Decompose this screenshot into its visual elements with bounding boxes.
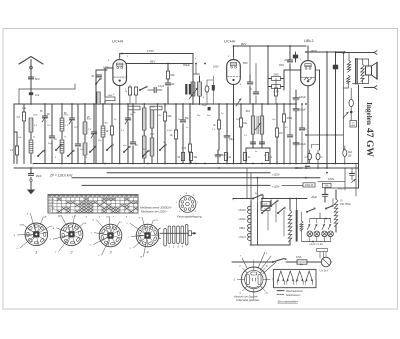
svg-text:7: 7 [240, 256, 242, 258]
svg-text:300: 300 [105, 123, 109, 125]
svg-text:25µF: 25µF [221, 154, 227, 157]
svg-text:8: 8 [240, 84, 242, 86]
switch S6 [325, 199, 333, 210]
capacitor C26 [287, 104, 292, 164]
svg-text:1,2: 1,2 [34, 125, 38, 127]
label tube V2 UCH4 [224, 39, 236, 44]
switch S2a [123, 146, 130, 153]
wire V3 anode [307, 46, 309, 61]
svg-text:5n: 5n [304, 129, 307, 131]
svg-text:85V: 85V [150, 60, 155, 64]
resistor R35 [134, 87, 137, 104]
resistor R17 1M [275, 104, 282, 164]
wire 90V rail [234, 42, 307, 57]
wire bus y184 [82, 184, 303, 188]
label coil vals [34, 125, 92, 131]
svg-text:1k: 1k [248, 157, 251, 159]
svg-text:50: 50 [114, 119, 117, 121]
svg-text:3: 3 [27, 214, 29, 216]
wire AF node [268, 46, 301, 104]
svg-text:Uf: Uf [140, 257, 143, 259]
coil L4 [60, 140, 64, 164]
svg-text:2: 2 [98, 255, 100, 257]
svg-text:UBL1: UBL1 [49, 205, 55, 207]
svg-text:15nF: 15nF [36, 174, 42, 178]
svg-text:1n: 1n [186, 127, 188, 129]
IF transformer T2 [246, 104, 264, 148]
svg-text:UY1N: UY1N [320, 269, 328, 273]
tube socket diagram 2 [50, 215, 87, 254]
wire bus y168 [14, 167, 359, 169]
svg-text:30: 30 [47, 113, 50, 116]
capacitor C25 [299, 104, 307, 164]
svg-text:76: 76 [304, 157, 307, 159]
switch S5 [306, 208, 315, 213]
svg-text:4: 4 [179, 211, 181, 213]
svg-text:+125V: +125V [272, 172, 280, 176]
resistor R10 5k [178, 153, 185, 164]
trimmer C4 [91, 104, 97, 164]
label noise group 3 [197, 113, 289, 157]
switch S1e [106, 144, 113, 151]
svg-text:10n: 10n [272, 119, 275, 121]
svg-text:Uf: Uf [84, 223, 87, 225]
svg-text:50p: 50p [207, 115, 211, 117]
capacitor C5 2n [49, 104, 57, 164]
capacitor C12 1nF [165, 83, 175, 104]
svg-text:1: 1 [90, 244, 92, 246]
svg-text:Unterseite gesehen: Unterseite gesehen [236, 298, 260, 302]
wire conn bottom [364, 87, 374, 89]
wire rail 358 [345, 85, 359, 188]
svg-text:Wechselstrom: Wechselstrom [286, 289, 304, 293]
resistor R25 26k box [323, 183, 332, 187]
svg-text:3: 3 [266, 253, 268, 255]
svg-text:a: a [180, 195, 182, 197]
svg-text:12V: 12V [58, 215, 62, 217]
svg-text:5: 5 [50, 239, 52, 241]
svg-text:50: 50 [125, 91, 128, 93]
switch S2b [142, 150, 149, 157]
label 28,6V [296, 166, 310, 170]
svg-text:1: 1 [55, 251, 57, 253]
svg-text:12V: 12V [19, 225, 23, 227]
switch S7 [139, 86, 147, 91]
dark blob pair [185, 84, 191, 95]
resistor R29 ballast a [288, 199, 292, 246]
svg-text:100µF: 100µF [299, 143, 306, 146]
label Stromartwaehler [278, 299, 299, 303]
svg-text:7: 7 [112, 217, 114, 219]
box UY A-B [350, 121, 357, 128]
resistor R3 grid stopper [105, 68, 115, 104]
svg-text:650µF: 650µF [183, 64, 190, 67]
wire rail 319 [316, 70, 320, 150]
svg-text:175V: 175V [147, 49, 154, 53]
capacitor C1 antenna 5nF [28, 77, 40, 81]
svg-text:5: 5 [99, 217, 101, 219]
svg-text:0,1: 0,1 [264, 155, 268, 157]
svg-text:25µF: 25µF [202, 105, 208, 107]
svg-text:4: 4 [55, 157, 57, 159]
capacitor C22 25uF [311, 188, 328, 202]
wire right mid v1 [325, 168, 345, 190]
capacitor C27 corner [350, 168, 356, 183]
svg-text:2000: 2000 [150, 107, 155, 109]
wire heater bottom [250, 244, 290, 246]
resistor R8 [170, 104, 178, 164]
svg-text:2: 2 [239, 266, 241, 268]
wire V2 cathode [233, 85, 235, 164]
switch S1b [55, 144, 62, 151]
resistor R24 120 box [303, 183, 315, 187]
label noise group 1 [18, 108, 109, 159]
wire power drop [232, 199, 234, 201]
capacitor C28 1nF blob [29, 92, 40, 97]
capacitor C24 [249, 64, 258, 105]
svg-text:A-B: A-B [351, 124, 355, 127]
capacitor C17 10nF [284, 52, 298, 62]
svg-text:1nF: 1nF [80, 149, 84, 151]
wire bus y177 [72, 177, 320, 179]
wire speaker top [355, 59, 369, 66]
label Fe fuse [300, 263, 303, 266]
wire drop a [0, 0, 1, 1]
wire bus y172 [107, 172, 280, 176]
T1 tuning arrow [189, 88, 198, 99]
dial lamps [307, 219, 333, 242]
svg-text:Gleichstrom: Gleichstrom [286, 293, 301, 297]
svg-text:8: 8 [14, 235, 16, 237]
switch S2c [159, 144, 166, 151]
resistor R16 10k [239, 104, 247, 164]
svg-text:5: 5 [91, 233, 93, 235]
oval resistor R38 [205, 80, 209, 105]
ground [27, 182, 35, 195]
wire front-end top bus [14, 103, 112, 105]
svg-text:4: 4 [147, 251, 149, 255]
svg-text:1: 1 [128, 236, 130, 238]
svg-text:2000: 2000 [33, 115, 38, 117]
svg-text:+110V: +110V [272, 184, 280, 188]
tube V1 UCH4 [113, 57, 127, 86]
wire V1 left rail [95, 70, 107, 164]
svg-text:3: 3 [120, 222, 122, 224]
tube socket diagram 1 [14, 214, 53, 255]
coil L11 pickup [97, 92, 100, 105]
capacitor C16 det [250, 142, 264, 144]
label Fassungsbelegung [177, 214, 202, 218]
svg-text:50: 50 [91, 76, 94, 78]
wire power top [233, 194, 258, 199]
svg-text:25µF: 25µF [311, 196, 317, 199]
wire y135 [306, 134, 344, 136]
svg-text:60k: 60k [171, 74, 176, 77]
svg-text:50: 50 [40, 111, 43, 113]
svg-text:6: 6 [108, 60, 110, 62]
svg-text:60p: 60p [130, 114, 134, 116]
label 175V [147, 49, 154, 53]
svg-text:8: 8 [53, 228, 55, 230]
svg-text:2k: 2k [229, 157, 232, 159]
label noise group 2 [114, 107, 188, 152]
wire bus drop c [257, 178, 259, 205]
svg-text:3000: 3000 [87, 119, 92, 121]
svg-text:65V: 65V [243, 61, 248, 65]
resistor R14 5k2 [265, 153, 272, 161]
heater chain [238, 201, 261, 245]
resistor R37 h [150, 106, 162, 110]
socket key diagram [176, 193, 199, 213]
svg-text:25µF: 25µF [229, 138, 235, 141]
wire sec link [343, 53, 348, 89]
wire rail 326 [326, 52, 328, 168]
svg-text:1kΩ: 1kΩ [348, 152, 352, 154]
svg-text:80: 80 [135, 145, 138, 147]
svg-text:2: 2 [70, 251, 73, 255]
wire lamp bottom [302, 242, 331, 246]
IF coil assembly drawing [158, 225, 197, 249]
svg-text:1n: 1n [221, 113, 223, 115]
svg-text:70: 70 [64, 137, 67, 139]
label 245V right [338, 187, 344, 191]
legend wechselstrom [277, 289, 304, 293]
wire mid bus 2 [250, 103, 296, 105]
trimmer C3 [69, 104, 75, 164]
svg-text:4k: 4k [170, 135, 173, 137]
resistor R2 1,5k [10, 132, 19, 164]
svg-text:4,7k: 4,7k [182, 148, 187, 150]
svg-text:8: 8 [186, 193, 188, 195]
switch S1a [37, 150, 44, 157]
svg-text:ZF2: ZF2 [246, 110, 251, 113]
svg-text:Fassungsbelegung: Fassungsbelegung [177, 214, 202, 218]
svg-text:0,1: 0,1 [121, 130, 125, 132]
svg-text:76: 76 [320, 157, 323, 159]
svg-text:5: 5 [16, 248, 18, 250]
svg-text:2n: 2n [163, 142, 165, 144]
svg-text:2000: 2000 [64, 115, 69, 117]
label 100V [103, 66, 109, 70]
wire 85V rail [127, 60, 194, 64]
wire step [312, 145, 320, 148]
label tube V1 UCH4 [112, 39, 124, 44]
fuse F1 0,5A [296, 255, 307, 264]
svg-text:300: 300 [158, 115, 162, 117]
wire V1 cathode down [119, 86, 121, 164]
svg-text:0,5: 0,5 [17, 116, 21, 119]
wire bus y163 [33, 163, 359, 165]
svg-text:4: 4 [85, 216, 87, 219]
svg-text:2n: 2n [249, 89, 252, 91]
svg-text:2n: 2n [54, 138, 57, 141]
svg-text:2W: 2W [348, 156, 352, 158]
wire mid bus [96, 103, 250, 105]
svg-text:Ansicht von Doppel-: Ansicht von Doppel- [233, 294, 258, 298]
wire T1 link [193, 64, 213, 81]
svg-text:2: 2 [71, 217, 74, 219]
svg-text:60k: 60k [194, 157, 199, 159]
resistor R11 60k [189, 153, 198, 164]
svg-text:8: 8 [138, 217, 140, 219]
svg-text:Meßwerte bei 220V~: Meßwerte bei 220V~ [141, 210, 168, 214]
svg-text:1,2: 1,2 [65, 125, 69, 127]
svg-text:2: 2 [130, 248, 132, 250]
label Messinstrument [140, 206, 173, 210]
svg-text:2: 2 [172, 246, 175, 249]
resistor R19 0,7M [268, 85, 284, 94]
label Ansicht line2 [236, 298, 260, 302]
svg-text:UY1N: UY1N [49, 208, 55, 210]
resistor R30 ballast bar [296, 199, 298, 242]
socket bottom view [234, 261, 274, 301]
svg-text:10n: 10n [178, 119, 181, 121]
measurement table [48, 195, 138, 214]
svg-text:2000: 2000 [150, 134, 155, 136]
switch S8 det [236, 99, 241, 106]
resistor R22 76b [316, 150, 324, 168]
svg-text:3: 3 [195, 211, 197, 213]
label 245V [310, 49, 317, 53]
resistor R20 47k [282, 104, 292, 164]
svg-text:12V: 12V [106, 217, 110, 219]
resistor R26 ballast Gl [334, 190, 351, 232]
capacitor C14 25uF [215, 150, 226, 164]
switch S4 line [272, 258, 286, 262]
svg-text:0,5A: 0,5A [296, 255, 302, 259]
wire right mid v2 [355, 164, 357, 197]
oval resistor R33 [349, 88, 353, 120]
svg-text:3: 3 [127, 56, 129, 58]
capacitor C19 100uF a [293, 90, 306, 104]
svg-text:UCH4: UCH4 [112, 39, 124, 44]
wire front-end left rail [13, 104, 15, 164]
switch S1d [89, 146, 96, 153]
svg-text:100p: 100p [279, 65, 285, 67]
resistor R23 1k2W [343, 146, 353, 164]
resistor R34 [125, 85, 132, 104]
capacitor C8 grid [91, 75, 101, 78]
svg-text:10k: 10k [243, 122, 248, 125]
capacitor C20 100uF b [293, 104, 306, 164]
resistor R7 60k [166, 64, 175, 83]
capacitor C21 100uF c [293, 143, 306, 146]
voltage selector contacts [261, 199, 285, 214]
svg-text:6: 6 [86, 157, 88, 159]
svg-text:5k: 5k [178, 157, 181, 159]
svg-text:0,1: 0,1 [212, 129, 216, 131]
svg-text:0,2: 0,2 [244, 135, 248, 137]
svg-text:150-750Ω: 150-750Ω [340, 203, 351, 206]
wire rail x193 [192, 54, 194, 105]
resistor R27 4,8k box [261, 202, 270, 206]
svg-text:1nF: 1nF [171, 83, 176, 86]
wire rail 334 [333, 52, 338, 164]
svg-text:3: 3 [110, 251, 112, 255]
svg-text:4: 4 [182, 246, 184, 249]
legend gleichstrom [277, 293, 301, 297]
resistor R31 zig small [300, 212, 303, 242]
svg-text:1: 1 [35, 251, 37, 255]
svg-text:3: 3 [177, 246, 179, 249]
svg-text:12V: 12V [154, 220, 158, 222]
tube V2 UCH4 [227, 57, 241, 85]
svg-text:70: 70 [33, 137, 36, 139]
speaker LS [366, 63, 378, 80]
resistor R32 [274, 79, 277, 105]
wire conn top [336, 52, 375, 54]
svg-text:3: 3 [234, 280, 236, 282]
capacitor C11 [130, 104, 138, 164]
label noise group 4 [108, 56, 315, 99]
svg-text:5nF: 5nF [35, 77, 40, 81]
svg-text:Ingelen: Ingelen [365, 102, 373, 125]
resistor R36 h [128, 106, 140, 114]
resistor R28 box [261, 207, 270, 211]
resistor R18 2M [268, 74, 284, 81]
svg-text:8: 8 [266, 266, 268, 268]
label 65V [243, 61, 248, 65]
plug P1 [321, 257, 332, 267]
svg-text:50p: 50p [197, 115, 201, 117]
socket leader fan [240, 252, 279, 274]
svg-text:100µF: 100µF [299, 96, 306, 99]
coil L8 osc [142, 104, 153, 136]
svg-text:2: 2 [197, 202, 199, 204]
label UY1N bottom [320, 269, 328, 273]
svg-text:a: a [195, 58, 197, 60]
resistor R9 4,7k [182, 104, 192, 164]
svg-text:3k: 3k [213, 125, 216, 127]
capacitor C6 [75, 104, 80, 164]
label Ingelen [365, 102, 373, 125]
svg-text:245V: 245V [338, 187, 344, 191]
trimmer C2 [42, 104, 50, 164]
coil L1 [29, 118, 33, 139]
wire drop b [317, 249, 328, 259]
svg-text:90V: 90V [241, 42, 246, 46]
svg-text:7: 7 [313, 84, 315, 86]
svg-text:6: 6 [266, 293, 268, 295]
svg-text:Stromartwähler: Stromartwähler [278, 299, 299, 303]
variable core arrow [255, 123, 261, 130]
label 100V V2 [213, 66, 219, 69]
label 50k [40, 111, 90, 119]
resistor R1 0,5M [17, 104, 26, 164]
svg-text:0,5M: 0,5M [167, 130, 172, 132]
label 47 GW [364, 128, 375, 157]
svg-text:2k: 2k [106, 131, 109, 133]
svg-text:3: 3 [75, 216, 77, 218]
capacitor C18 100pF [279, 46, 293, 70]
capacitor C9 0,1uF [148, 85, 165, 93]
wire top right bus [268, 46, 345, 52]
svg-text:Uf: Uf [44, 217, 47, 219]
svg-text:50p: 50p [185, 118, 190, 120]
label ZF frequency [49, 174, 73, 178]
svg-text:1nF: 1nF [35, 94, 40, 97]
svg-text:UBL1: UBL1 [239, 226, 246, 230]
wire y89 [19, 84, 75, 104]
wire V3 cathode [307, 86, 309, 164]
svg-text:100µF: 100µF [299, 109, 306, 112]
svg-text:UCH4: UCH4 [224, 39, 236, 44]
coil L7 [101, 104, 105, 164]
svg-text:UCH4: UCH4 [49, 199, 55, 201]
svg-text:1: 1 [169, 246, 171, 249]
svg-text:15p: 15p [123, 145, 127, 147]
wire bus drop a [246, 168, 248, 199]
